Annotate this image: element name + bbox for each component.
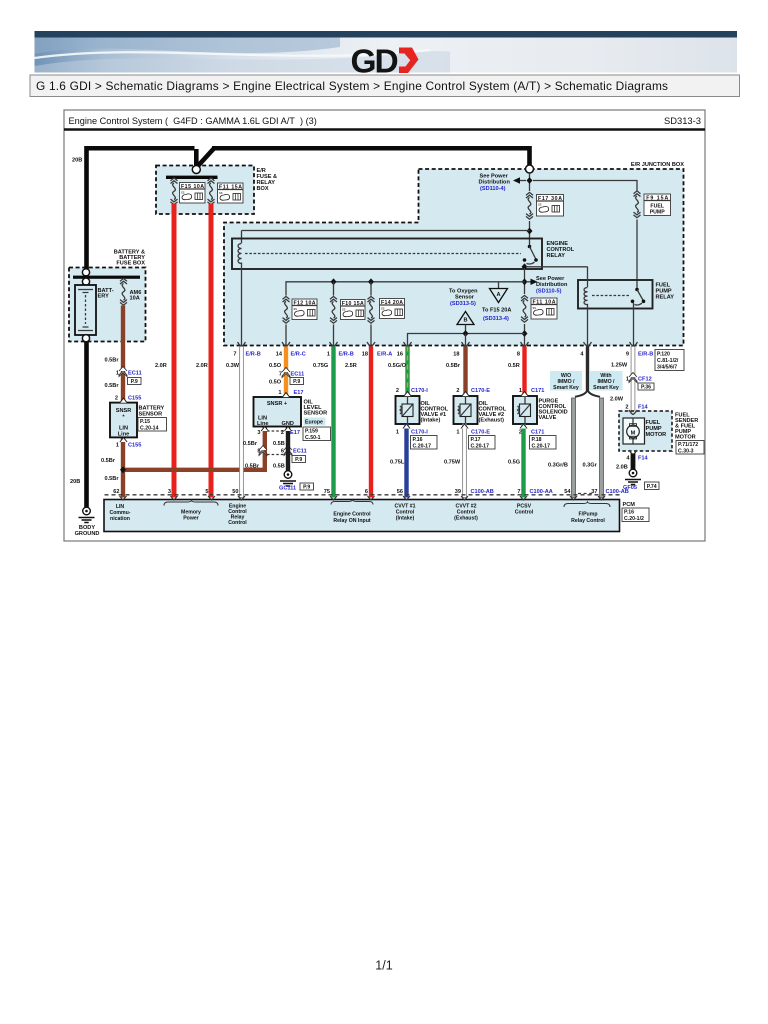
svg-text:To F15 20A: To F15 20A bbox=[482, 308, 511, 314]
wire 0.5Br battery sensor bbox=[121, 306, 125, 498]
svg-text:P.74: P.74 bbox=[647, 484, 657, 490]
svg-text:1: 1 bbox=[456, 430, 459, 436]
svg-text:0.5Br: 0.5Br bbox=[105, 358, 120, 364]
svg-text:(Exhaust): (Exhaust) bbox=[454, 516, 478, 522]
svg-text:E/R JUNCTION BOX: E/R JUNCTION BOX bbox=[631, 162, 684, 168]
fuse F12 10A bbox=[283, 296, 290, 323]
split of fuel pump relay control into two options bbox=[575, 389, 600, 397]
svg-text:0.5Br: 0.5Br bbox=[245, 464, 260, 470]
wire 0.3Gr bbox=[600, 398, 604, 498]
svg-text:F14: F14 bbox=[638, 405, 649, 411]
svg-text:Relay ON Input: Relay ON Input bbox=[333, 518, 370, 524]
svg-text:20B: 20B bbox=[70, 479, 80, 485]
IMMO option boxes bbox=[550, 371, 582, 391]
svg-text:1: 1 bbox=[626, 377, 629, 383]
svg-text:0.5G: 0.5G bbox=[508, 460, 520, 466]
svg-text:VALVE: VALVE bbox=[539, 415, 557, 421]
svg-text:C170-E: C170-E bbox=[471, 430, 490, 436]
svg-text:56: 56 bbox=[397, 489, 403, 495]
feed wire to three fuses bbox=[286, 282, 525, 296]
GDS logo bbox=[351, 44, 419, 81]
svg-text:9: 9 bbox=[626, 352, 629, 358]
oil control valve 2 bbox=[454, 396, 478, 424]
fuel pump relay bbox=[526, 267, 674, 346]
svg-text:Distribution: Distribution bbox=[536, 282, 568, 288]
svg-text:1: 1 bbox=[278, 390, 281, 396]
battery & battery fuse box bbox=[69, 268, 146, 342]
svg-text:0.5Br: 0.5Br bbox=[105, 383, 120, 389]
body ground bbox=[75, 507, 100, 537]
svg-text:P.9: P.9 bbox=[303, 485, 310, 491]
svg-text:1: 1 bbox=[116, 443, 119, 449]
svg-text:Engine Control: Engine Control bbox=[333, 512, 371, 518]
svg-text:Europe: Europe bbox=[305, 420, 323, 426]
svg-text:0.3W: 0.3W bbox=[226, 363, 240, 369]
svg-text:0.5Br: 0.5Br bbox=[105, 476, 120, 482]
svg-text:E/R-A: E/R-A bbox=[377, 352, 392, 358]
svg-text:P.16: P.16 bbox=[624, 510, 634, 516]
svg-text:18: 18 bbox=[362, 352, 368, 358]
svg-text:0.5B: 0.5B bbox=[273, 441, 285, 447]
svg-text:Sensor: Sensor bbox=[455, 295, 475, 301]
wire to fuel pump fuse bbox=[533, 181, 637, 192]
svg-text:M: M bbox=[631, 431, 636, 437]
svg-text:2: 2 bbox=[281, 430, 284, 436]
svg-text:54: 54 bbox=[564, 489, 571, 495]
svg-text:C.81-1/2/: C.81-1/2/ bbox=[657, 358, 679, 364]
svg-text:0.5Br: 0.5Br bbox=[243, 441, 258, 447]
wire 2.0B fuel pump ground bbox=[631, 454, 636, 470]
svg-text:3: 3 bbox=[168, 489, 171, 495]
svg-text:E17: E17 bbox=[294, 390, 304, 396]
svg-text:ss: ss bbox=[538, 203, 542, 207]
svg-text:C100-AB: C100-AB bbox=[471, 489, 494, 495]
junction circle bbox=[192, 166, 200, 174]
svg-text:E/R-B: E/R-B bbox=[638, 352, 653, 358]
fuse F11 15A bbox=[208, 178, 215, 205]
svg-text:14: 14 bbox=[276, 352, 283, 358]
schematic outer frame bbox=[64, 110, 705, 541]
svg-text:Control: Control bbox=[515, 510, 534, 516]
svg-text:C.20-17: C.20-17 bbox=[471, 444, 490, 450]
svg-text:P.120: P.120 bbox=[657, 352, 670, 358]
svg-text:ss: ss bbox=[219, 191, 223, 195]
svg-text:16: 16 bbox=[397, 352, 403, 358]
svg-text:75: 75 bbox=[324, 489, 330, 495]
svg-text:GC111: GC111 bbox=[279, 486, 296, 492]
svg-text:GROUND: GROUND bbox=[75, 531, 100, 537]
junction box feed node bbox=[526, 165, 534, 173]
svg-text:E/R-B: E/R-B bbox=[246, 352, 261, 358]
svg-text:MOTOR: MOTOR bbox=[646, 432, 667, 438]
wire 2.0R memory power 2 bbox=[209, 204, 214, 498]
ground GF05 bbox=[625, 469, 641, 484]
svg-text:ss: ss bbox=[533, 306, 537, 310]
fuse F11 10A bbox=[521, 295, 528, 322]
svg-text:39: 39 bbox=[455, 489, 461, 495]
svg-text:8: 8 bbox=[517, 352, 520, 358]
svg-text:nication: nication bbox=[110, 516, 130, 522]
fuse F15 10A bbox=[171, 178, 178, 205]
fuse F9 15A fuel pump bbox=[634, 191, 641, 218]
svg-text:Engine Control System ( G4FD: Engine Control System ( G4FD : GAMMA 1.6… bbox=[69, 116, 317, 126]
svg-text:PUMP: PUMP bbox=[650, 210, 666, 216]
wire 20B thick black battery feed bbox=[87, 147, 532, 508]
battery BATT-ERY bbox=[75, 285, 114, 335]
see power distribution SD110-5 bbox=[531, 279, 538, 285]
battery sensor SNSR box bbox=[110, 403, 137, 438]
fuel pump relay coil bbox=[587, 267, 589, 288]
svg-text:C.30-3: C.30-3 bbox=[678, 449, 694, 455]
svg-text:1.25W: 1.25W bbox=[611, 363, 628, 369]
svg-text:G 1.6 GDI > Schematic Diagrams: G 1.6 GDI > Schematic Diagrams > Engine … bbox=[36, 79, 668, 93]
svg-text:F10 15A: F10 15A bbox=[342, 301, 364, 307]
svg-text:Line: Line bbox=[118, 432, 130, 438]
svg-text:0.5Br: 0.5Br bbox=[446, 363, 461, 369]
svg-text:1: 1 bbox=[396, 430, 399, 436]
svg-text:P.9: P.9 bbox=[295, 457, 302, 463]
bus bar bbox=[166, 176, 218, 179]
svg-text:P.159: P.159 bbox=[305, 429, 318, 435]
svg-text:F11 15A: F11 15A bbox=[219, 185, 242, 191]
svg-text:2.0B: 2.0B bbox=[616, 465, 628, 471]
svg-text:Relay Control: Relay Control bbox=[571, 518, 605, 524]
svg-text:F9 15A: F9 15A bbox=[646, 196, 668, 202]
ground GC111 bbox=[280, 471, 296, 486]
svg-text:5: 5 bbox=[205, 489, 208, 495]
svg-text:P.17: P.17 bbox=[471, 437, 481, 443]
coil feed from engine control relay bbox=[526, 266, 588, 268]
boundary crossing marks on junction box bottom bbox=[238, 342, 246, 347]
svg-text:0.5Br: 0.5Br bbox=[101, 458, 116, 464]
svg-text:CF12: CF12 bbox=[638, 377, 652, 383]
svg-text:2: 2 bbox=[456, 388, 459, 394]
svg-text:Smart Key: Smart Key bbox=[553, 385, 579, 391]
wire 2.0R memory power 1 bbox=[172, 204, 177, 498]
svg-text:50: 50 bbox=[232, 489, 238, 495]
wire 0.75W CVVT2 control bbox=[463, 424, 467, 498]
svg-text:7: 7 bbox=[279, 372, 282, 378]
svg-text:F17 30A: F17 30A bbox=[538, 196, 562, 202]
engine control relay bbox=[232, 239, 575, 346]
svg-text:(SD313-4): (SD313-4) bbox=[483, 316, 509, 322]
svg-text:P.15: P.15 bbox=[140, 419, 150, 425]
svg-text:C170-E: C170-E bbox=[471, 388, 490, 394]
svg-text:(SD110-5): (SD110-5) bbox=[536, 289, 562, 295]
svg-text:ss: ss bbox=[381, 307, 385, 311]
svg-text:C.50-1: C.50-1 bbox=[305, 435, 321, 441]
fuel pump motor box bbox=[619, 411, 672, 451]
svg-text:2: 2 bbox=[396, 388, 399, 394]
wire 0.5G/O CVVT1 feed bbox=[405, 347, 409, 397]
svg-text:2: 2 bbox=[625, 405, 628, 411]
svg-text:62: 62 bbox=[113, 489, 119, 495]
svg-text:F12 10A: F12 10A bbox=[294, 301, 316, 307]
wire 0.75G engine control relay ON input bbox=[331, 347, 335, 498]
svg-text:C171: C171 bbox=[531, 388, 544, 394]
svg-text:C.20-14: C.20-14 bbox=[140, 426, 159, 432]
svg-text:FUSE BOX: FUSE BOX bbox=[116, 261, 145, 267]
svg-text:0.5O: 0.5O bbox=[269, 363, 282, 369]
relay coil bbox=[238, 244, 241, 264]
svg-text:P.16: P.16 bbox=[413, 437, 423, 443]
svg-text:1: 1 bbox=[519, 388, 522, 394]
svg-text:(Intake): (Intake) bbox=[396, 516, 415, 522]
svg-text:1/1: 1/1 bbox=[375, 959, 392, 973]
triangle B from F15 20A bbox=[457, 312, 474, 325]
svg-text:C.20-1/2: C.20-1/2 bbox=[624, 516, 644, 522]
svg-text:P.71/172: P.71/172 bbox=[678, 442, 698, 448]
pin terminal forks bbox=[120, 496, 606, 500]
svg-text:7: 7 bbox=[517, 489, 520, 495]
svg-text:Line: Line bbox=[257, 421, 269, 427]
svg-text:3/4/5/6/7: 3/4/5/6/7 bbox=[657, 365, 677, 371]
svg-text:PCM: PCM bbox=[623, 502, 636, 508]
svg-text:P.9: P.9 bbox=[131, 379, 138, 385]
svg-text:Distribution: Distribution bbox=[479, 180, 511, 186]
svg-text:C170-I: C170-I bbox=[411, 388, 428, 394]
svg-text:10A: 10A bbox=[130, 296, 140, 302]
wire 0.3Gr/B bbox=[572, 398, 576, 498]
svg-text:2.0R: 2.0R bbox=[155, 363, 167, 369]
fuse F10 15A bbox=[330, 296, 337, 323]
header banner bbox=[35, 31, 738, 73]
wire 0.75L CVVT1 control bbox=[404, 424, 408, 498]
PCM connector strip bbox=[105, 494, 620, 496]
svg-text:37: 37 bbox=[591, 489, 597, 495]
wire 2.5R engine control relay ON input bbox=[369, 347, 373, 498]
svg-text:0.75W: 0.75W bbox=[444, 460, 461, 466]
svg-text:F11 10A: F11 10A bbox=[533, 300, 556, 306]
svg-text:0.75G: 0.75G bbox=[313, 363, 328, 369]
battery box internals bbox=[82, 269, 89, 276]
svg-text:F/Pump: F/Pump bbox=[578, 512, 597, 518]
svg-text:EC11: EC11 bbox=[128, 371, 142, 377]
svg-text:P.36: P.36 bbox=[641, 385, 651, 391]
svg-text:6: 6 bbox=[365, 489, 368, 495]
wire 0.5O oil level sensor feed bbox=[284, 347, 288, 398]
svg-text:(SD313-5): (SD313-5) bbox=[450, 301, 476, 307]
svg-text:SD313-3: SD313-3 bbox=[664, 115, 701, 126]
wire 1.25W fuel pump feed bbox=[631, 347, 635, 412]
purge control solenoid valve bbox=[513, 396, 537, 424]
wire to engine control relay coil bbox=[242, 231, 530, 244]
triangle A to oxygen sensor bbox=[498, 282, 500, 289]
svg-text:1: 1 bbox=[116, 371, 119, 377]
wire 0.5B oil level sensor ground bbox=[286, 427, 290, 472]
fuse F14 20A bbox=[368, 296, 375, 323]
LIN bus brown branch wire bbox=[121, 427, 265, 470]
wire 0.5G PCSV control bbox=[521, 424, 525, 498]
svg-text:C.20-17: C.20-17 bbox=[532, 444, 551, 450]
svg-text:0.75L: 0.75L bbox=[390, 460, 405, 466]
svg-text:2.0R: 2.0R bbox=[196, 363, 208, 369]
relay switch bbox=[528, 245, 532, 249]
svg-text:C170-I: C170-I bbox=[411, 430, 428, 436]
svg-text:F15 10A: F15 10A bbox=[181, 184, 204, 190]
svg-text:ss: ss bbox=[342, 308, 346, 312]
svg-text:C100-AA: C100-AA bbox=[530, 489, 553, 495]
wire 0.3W engine control relay control bbox=[240, 347, 244, 498]
svg-text:RELAY: RELAY bbox=[656, 295, 675, 301]
svg-text:2.0W: 2.0W bbox=[610, 397, 624, 403]
svg-text:P.9: P.9 bbox=[293, 379, 300, 385]
svg-text:SNSR +: SNSR + bbox=[267, 401, 288, 407]
svg-text:C.20-17: C.20-17 bbox=[413, 444, 432, 450]
svg-text:2: 2 bbox=[115, 396, 118, 402]
svg-text:0.5R: 0.5R bbox=[508, 363, 520, 369]
wire 0.3B fuel pump relay control bbox=[586, 347, 589, 391]
svg-text:SENSOR: SENSOR bbox=[139, 412, 163, 418]
svg-text:(Exhaust): (Exhaust) bbox=[479, 418, 505, 424]
svg-text:0.5O: 0.5O bbox=[269, 380, 282, 386]
svg-text:Power: Power bbox=[183, 516, 199, 522]
svg-text:SENSOR: SENSOR bbox=[304, 411, 328, 417]
svg-text:ERY: ERY bbox=[98, 294, 110, 300]
relay linkage dashed bbox=[245, 253, 521, 255]
oil control valve 1 bbox=[396, 396, 420, 424]
svg-text:F14 20A: F14 20A bbox=[381, 300, 403, 306]
svg-text:C171: C171 bbox=[531, 430, 544, 436]
svg-text:E/R-B: E/R-B bbox=[339, 352, 354, 358]
svg-text:Control: Control bbox=[228, 520, 247, 526]
svg-text:EC11: EC11 bbox=[291, 372, 305, 378]
pin notches on component boxes bbox=[120, 392, 528, 442]
svg-text:(Intake): (Intake) bbox=[421, 418, 441, 424]
svg-text:E/R-C: E/R-C bbox=[291, 352, 306, 358]
svg-text:B: B bbox=[463, 318, 467, 324]
svg-text:Smart Key: Smart Key bbox=[593, 385, 619, 391]
svg-text:ss: ss bbox=[181, 191, 185, 195]
svg-text:0.3Gr/B: 0.3Gr/B bbox=[548, 463, 568, 469]
see power distribution SD110-4 bbox=[513, 177, 520, 183]
svg-text:MOTOR: MOTOR bbox=[675, 435, 696, 441]
svg-text:C100-AB: C100-AB bbox=[606, 489, 629, 495]
breadcrumb bar bbox=[30, 75, 740, 97]
svg-text:RELAY: RELAY bbox=[547, 253, 566, 259]
svg-text:EC11: EC11 bbox=[293, 449, 307, 455]
svg-text:C155: C155 bbox=[128, 443, 141, 449]
fuel pump relay switch bbox=[635, 288, 639, 292]
svg-text:P.18: P.18 bbox=[532, 437, 542, 443]
connector EC11 on battery sensor wire bbox=[119, 367, 127, 377]
svg-text:18: 18 bbox=[453, 352, 459, 358]
svg-text:F14: F14 bbox=[638, 456, 649, 462]
svg-text:20B: 20B bbox=[72, 158, 82, 164]
oil level sensor SNSR+ box bbox=[254, 397, 302, 427]
wire 0.5Br CVVT2 feed bbox=[463, 347, 467, 397]
svg-text:ss: ss bbox=[294, 307, 298, 311]
svg-text:A: A bbox=[496, 292, 500, 298]
wire 0.5R PCSV feed bbox=[522, 347, 526, 397]
svg-text:1: 1 bbox=[327, 352, 330, 358]
E/R fuse & relay box bbox=[156, 166, 254, 215]
fuse F17 30A bbox=[526, 192, 533, 219]
svg-text:0.3Gr: 0.3Gr bbox=[583, 463, 598, 469]
E/R junction box (L-shaped dashed region) bbox=[224, 169, 684, 346]
svg-text:BOX: BOX bbox=[257, 186, 269, 192]
svg-text:0.5B: 0.5B bbox=[273, 464, 285, 470]
node bus to triangle B and CVVT feed bbox=[408, 334, 525, 346]
svg-text:0.5G/O: 0.5G/O bbox=[388, 363, 407, 369]
fuse AM6 10A bbox=[120, 278, 127, 305]
svg-text:3: 3 bbox=[257, 430, 260, 436]
svg-text:(SD110-4): (SD110-4) bbox=[480, 186, 506, 192]
svg-text:7: 7 bbox=[233, 352, 236, 358]
svg-text:2.5R: 2.5R bbox=[345, 363, 357, 369]
svg-text:C155: C155 bbox=[128, 396, 141, 402]
svg-text:6: 6 bbox=[281, 449, 284, 455]
svg-text:SNSR: SNSR bbox=[116, 408, 132, 414]
